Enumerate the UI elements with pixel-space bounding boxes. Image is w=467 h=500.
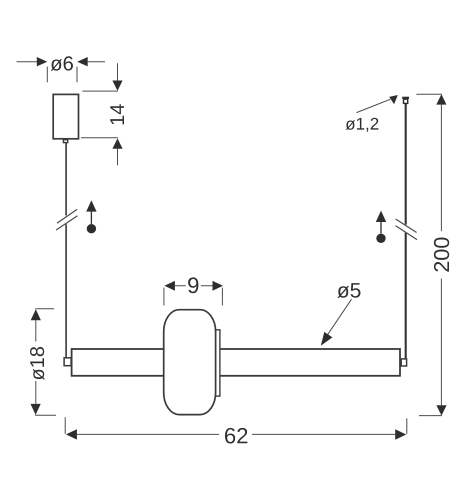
right height-adjust arrow stem [380, 222, 382, 234]
dim ø18 label [30, 347, 44, 380]
dim 62 right arrow [395, 429, 406, 439]
dim ø18 bottom tick [35, 414, 56, 416]
dim ø6 right extension line [76, 67, 78, 83]
dim 14 top arrow [112, 81, 122, 91]
dim 62 right extension line [406, 418, 408, 434]
bar (horizontal lamp tube) [72, 349, 400, 376]
left height-adjust dot [87, 224, 96, 233]
dim ø18 line upper [35, 320, 37, 341]
dim 9 right extension line [221, 288, 223, 306]
left height-adjust arrow stem [90, 212, 92, 224]
dim 62 label [225, 428, 247, 444]
dim 200 bottom tick [419, 415, 442, 417]
dim ø6 left arrow [37, 57, 48, 66]
dim 200 bottom arrow [436, 405, 446, 415]
dim ø6 right tail line [88, 61, 105, 63]
dim 200 line lower [440, 279, 442, 406]
right suspension wire upper segment [405, 104, 407, 225]
left height-adjust arrow [86, 200, 96, 211]
right height-adjust dot [376, 234, 385, 243]
dim 200 top tick [416, 93, 442, 95]
dim 9 line [175, 285, 213, 287]
dim ø18 top arrow [31, 309, 41, 320]
ceiling canopy [53, 94, 78, 138]
dim ø1,2 leader line [357, 99, 391, 112]
dim ø5 leader arrow [321, 332, 333, 346]
dim 62 left arrow [66, 429, 77, 439]
wire top fitting cap [402, 97, 409, 99]
dim 200 top arrow [436, 94, 446, 104]
dim ø6 left tail line [17, 61, 38, 63]
dim 14 label [110, 104, 124, 124]
dim 9 right arrow [213, 281, 224, 291]
dim ø18 top tick [35, 308, 54, 310]
dim 14 bottom arrow [112, 138, 122, 148]
dim 14 top tail line [117, 63, 119, 80]
left cable end nub on bar [64, 358, 71, 366]
left suspension cable upper segment [65, 143, 67, 216]
mounting plate behind shade [212, 330, 220, 396]
dim ø1,2 label [346, 118, 379, 132]
right wire break mark [396, 219, 417, 240]
dim ø6 right arrow [77, 57, 88, 66]
right suspension wire lower segment [405, 233, 407, 359]
shade (rounded capsule) [164, 310, 216, 415]
dim ø5 label [337, 283, 360, 298]
canopy cable nub [63, 140, 67, 143]
dim ø6 left extension line [46, 67, 48, 83]
dim 62 left extension line [64, 417, 66, 434]
dim 9 label [188, 277, 198, 293]
dim 200 line upper [440, 105, 442, 232]
dim ø5 leader line [327, 299, 351, 335]
dim 9 left extension line [163, 288, 165, 306]
dim 14 bottom tail line [117, 149, 119, 166]
left cable break mark [56, 209, 77, 230]
dim 62 label backing [219, 425, 252, 444]
dim 200 label [434, 238, 449, 272]
wire top fitting body [404, 99, 408, 103]
right height-adjust arrow [376, 211, 386, 222]
left suspension cable lower segment [65, 224, 67, 358]
dim ø1,2 leader arrow [389, 95, 398, 104]
dim 14 bottom tick [81, 137, 118, 139]
dim 14 top tick [82, 90, 118, 92]
right wire end nub on bar [401, 359, 406, 366]
dim ø18 line lower [35, 381, 37, 404]
dim ø18 bottom arrow [31, 404, 41, 415]
dim 9 left arrow [164, 281, 175, 291]
dim ø6 label [51, 56, 73, 71]
dim 62 line [77, 433, 395, 435]
dim 9 label backing [186, 276, 201, 295]
